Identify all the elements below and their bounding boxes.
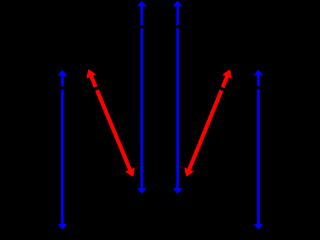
blue double-headed arrow (outer right) <box>254 70 263 230</box>
red double-headed diagonal arrow (left) <box>87 69 135 177</box>
blue double-headed arrow (center right) <box>173 1 182 194</box>
blue double-headed arrow (outer left) <box>58 70 67 230</box>
blue double-headed arrow (center left) <box>137 1 146 194</box>
red double-headed diagonal arrow (right) <box>185 70 232 177</box>
